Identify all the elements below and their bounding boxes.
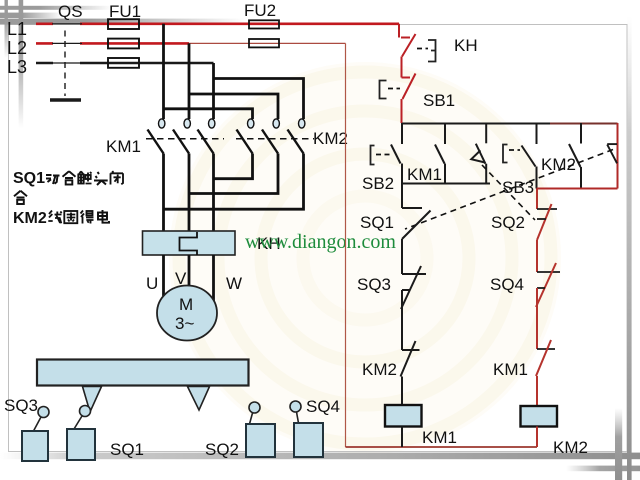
wire L2 (red feeder)	[36, 42, 189, 45]
limit contact SQ1-NO (red, with cam wedge)	[607, 123, 617, 189]
svg-text:L1: L1	[7, 19, 27, 39]
svg-text:QS: QS	[58, 2, 83, 21]
svg-text:SQ2: SQ2	[205, 440, 239, 459]
svg-text:www.diangon.com: www.diangon.com	[245, 231, 396, 253]
bottom bus	[346, 446, 538, 448]
left parallel sub-bus	[402, 183, 490, 185]
left rail (from FU2-2)	[345, 43, 347, 447]
svg-text:SQ1: SQ1	[13, 170, 45, 187]
wire to KM2 T5	[189, 94, 278, 119]
limit switch SQ3-NC	[401, 266, 426, 350]
svg-text:3~: 3~	[175, 314, 194, 333]
pale yellow watermark rings	[169, 62, 561, 454]
limit switch SQ4 (mech)	[290, 401, 323, 457]
disconnect switch QS	[50, 24, 82, 100]
svg-text:KM2: KM2	[541, 155, 576, 174]
main contact outputs with phase crossover	[164, 154, 304, 232]
fuse FU2-2	[249, 39, 279, 47]
svg-text:SQ1: SQ1	[360, 213, 394, 232]
wire L3 drop	[212, 63, 215, 119]
stop button SB1 (NC, red)	[380, 74, 416, 124]
limit switch SQ2-NC (red, right column)	[537, 189, 557, 273]
contactor KM1 main contacts	[146, 119, 224, 154]
svg-text:SQ4: SQ4	[490, 275, 524, 294]
svg-text:FU2: FU2	[244, 1, 276, 20]
wire L1 drop	[162, 24, 165, 119]
workbench	[37, 360, 249, 386]
dog cam 1	[83, 387, 102, 413]
svg-text:SQ3: SQ3	[357, 275, 391, 294]
svg-text:M: M	[179, 295, 193, 314]
main-circuit phase drops and crossover wiring	[164, 24, 304, 119]
svg-text:SQ2: SQ2	[491, 213, 525, 232]
start button SB3 (NO)	[503, 123, 537, 189]
fuse FU1-3	[108, 58, 139, 68]
wire to KM2 T6	[214, 79, 304, 120]
frame bars top-left	[0, 6, 112, 10]
wire L2 thin continuation to FU2 and left rail	[189, 42, 346, 44]
svg-text:KM2: KM2	[13, 210, 47, 227]
svg-text:W: W	[226, 274, 242, 293]
wire to KM2 T4	[164, 109, 253, 119]
interlock KM1-NC (red)	[536, 340, 555, 406]
frame bars bottom/right	[0, 453, 640, 460]
coil KM2	[521, 406, 558, 427]
svg-text:SQ3: SQ3	[4, 396, 38, 415]
limit contact SQ2-NO (with cam wedge)	[471, 123, 486, 184]
svg-text:L3: L3	[7, 57, 27, 77]
svg-text:KM1: KM1	[407, 165, 442, 184]
limit switch SQ3 (mech)	[22, 407, 49, 462]
right parallel sub-bus (red)	[537, 188, 618, 190]
thermal overload KH heater box	[143, 231, 236, 255]
fuse FU1-1	[108, 19, 139, 29]
svg-text:U: U	[146, 274, 158, 293]
coil KM1	[385, 405, 422, 427]
contactor KM2 main contacts	[236, 119, 314, 154]
limit switch SQ1-NC (left column)	[402, 184, 431, 275]
limit switch SQ2 (mech)	[246, 402, 275, 457]
overload contact KH (NC, red)	[399, 24, 436, 78]
svg-text:KM1: KM1	[106, 137, 141, 156]
aux contact KM2 (NO self-hold)	[569, 123, 581, 189]
start button SB2 (NO)	[371, 123, 403, 184]
main control bus	[402, 123, 550, 125]
svg-text:KM2: KM2	[553, 438, 588, 457]
fuse FU1-2	[108, 39, 139, 49]
svg-text:SQ4: SQ4	[306, 397, 340, 416]
svg-text:SB1: SB1	[423, 91, 455, 110]
limit switch SQ4-NC (red)	[536, 263, 560, 349]
fuse FU2-1	[249, 20, 279, 28]
motor M 3~	[157, 286, 217, 341]
wire L2 drop	[188, 43, 191, 119]
svg-text:L2: L2	[7, 38, 27, 58]
motor wires U V W	[164, 255, 214, 301]
linkage dashed SQ2	[482, 165, 535, 220]
svg-text:SB2: SB2	[362, 174, 394, 193]
svg-text:KM1: KM1	[493, 360, 528, 379]
aux contact KM1 (NO self-hold)	[435, 123, 445, 184]
wire L1 (red feeder)	[36, 22, 399, 25]
svg-text:KM1: KM1	[422, 428, 457, 447]
wire L3 (black feeder)	[36, 62, 214, 65]
svg-text:KM2: KM2	[362, 360, 397, 379]
linkage dashed SQ1	[405, 150, 613, 230]
interlock KM2-NC	[401, 341, 420, 405]
svg-text:FU1: FU1	[109, 2, 141, 21]
svg-text:KH: KH	[454, 36, 478, 55]
svg-text:KM2: KM2	[313, 129, 348, 148]
svg-text:SQ1: SQ1	[110, 440, 144, 459]
limit switch SQ1 (mech)	[67, 406, 95, 461]
dog cam 2	[188, 387, 210, 411]
